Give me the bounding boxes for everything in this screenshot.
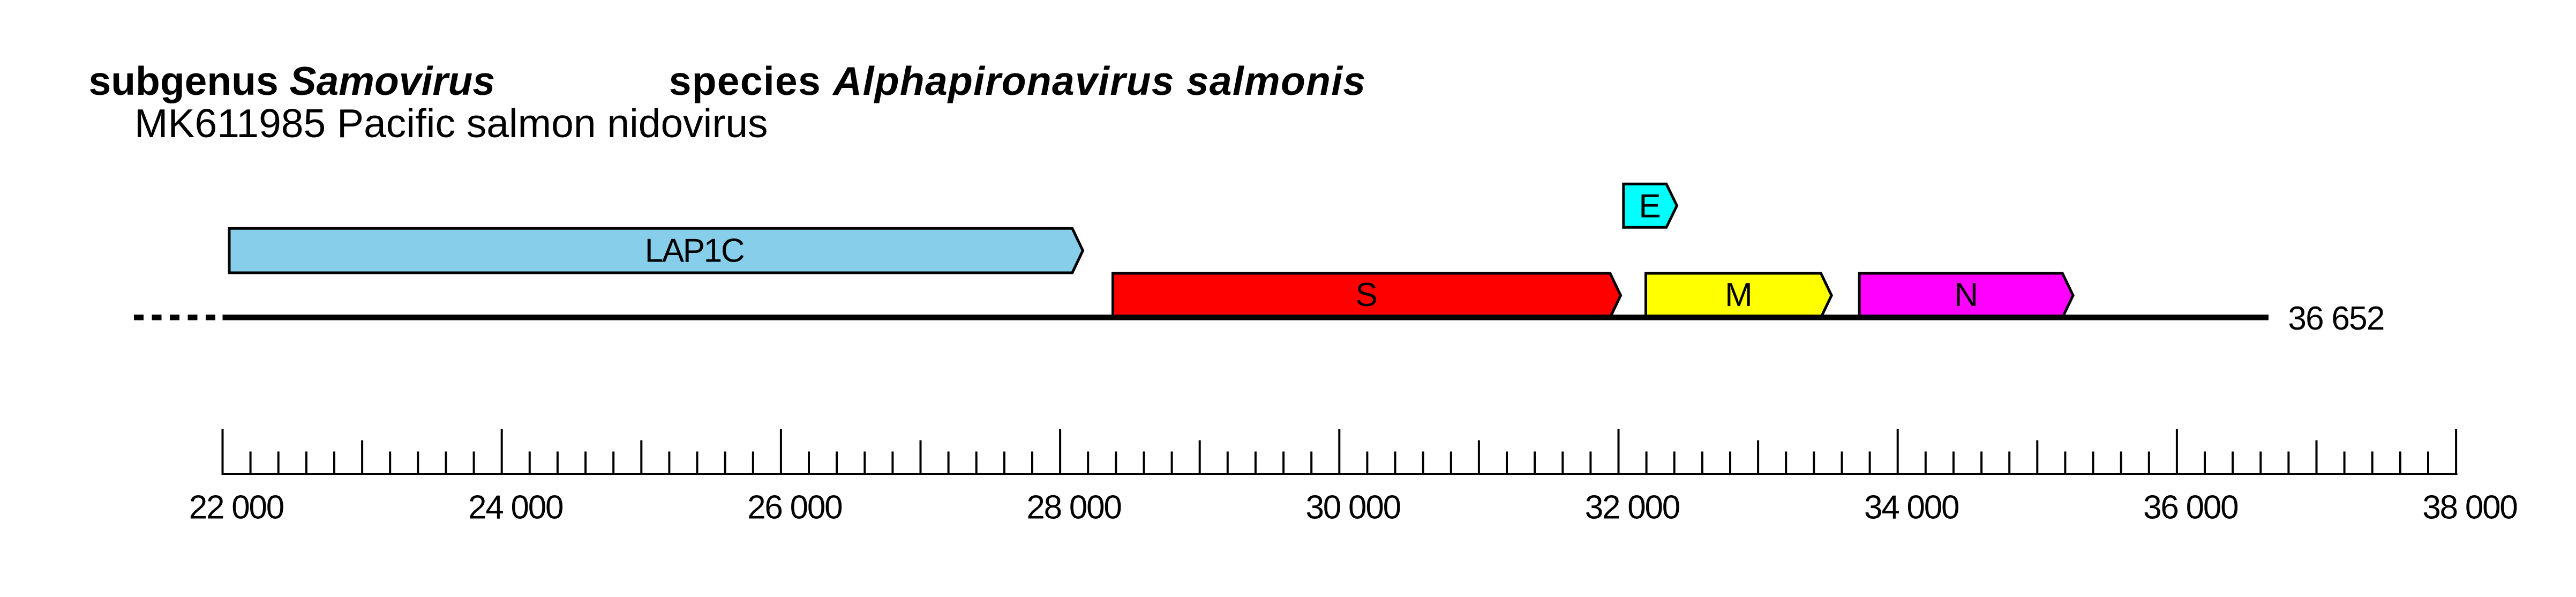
svg-text:36 000: 36 000 [2143, 489, 2239, 526]
svg-text:S: S [1355, 277, 1377, 314]
svg-text:22 000: 22 000 [189, 489, 285, 526]
svg-text:38 000: 38 000 [2422, 489, 2518, 526]
svg-text:26 000: 26 000 [747, 489, 843, 526]
svg-text:34 000: 34 000 [1864, 489, 1960, 526]
svg-text:M: M [1725, 277, 1753, 314]
svg-text:E: E [1639, 188, 1661, 225]
svg-text:32 000: 32 000 [1585, 489, 1681, 526]
svg-text:LAP1C: LAP1C [645, 232, 745, 269]
svg-text:28 000: 28 000 [1026, 489, 1122, 526]
svg-text:species Alphapironavirus salmo: species Alphapironavirus salmonis [669, 58, 1366, 103]
svg-text:36 652: 36 652 [2288, 300, 2385, 337]
svg-text:24 000: 24 000 [468, 489, 564, 526]
svg-text:subgenus Samovirus: subgenus Samovirus [89, 58, 495, 103]
svg-text:MK611985 Pacific salmon nidovi: MK611985 Pacific salmon nidovirus [134, 101, 768, 146]
svg-text:N: N [1954, 277, 1978, 314]
svg-text:30 000: 30 000 [1306, 489, 1402, 526]
